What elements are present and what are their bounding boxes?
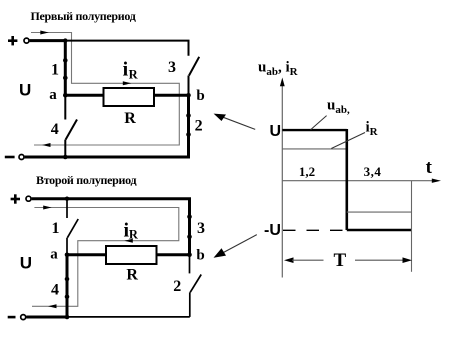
switch S4 open branch (circuit 1) [65,96,77,157]
svg-text:2: 2 [195,118,203,135]
label R (circuit 2) [126,266,138,283]
wire: switch 3 to node b (circuit 1) [188,76,190,96]
current arrow bottom (circuit 1) [42,143,51,147]
dashed -U level line [283,229,346,231]
label -U level [264,222,281,239]
wire: node a to resistor (circuit 1) [65,94,104,97]
contact dot S3 lower (circuit 2) [187,234,192,239]
svg-text:b: b [196,88,204,104]
wire: resistor to node b (circuit 1) [154,94,189,97]
svg-text:T: T [334,250,347,271]
svg-text:3,4: 3,4 [364,164,382,179]
terminal circle - (circuit 1) [19,155,24,160]
wire: bottom return (circuit 1) [25,156,190,159]
pointer line i_R [331,133,365,149]
u_ab negative segment [347,229,412,231]
label interval 3,4 [364,164,382,179]
plus terminal symbol (circuit 2) [11,194,20,203]
terminal circle + (circuit 1) [24,38,29,43]
contact dot S1 upper [63,58,68,63]
label interval 1,2 [299,164,315,179]
wire: top branch to switch 3 (circuit 2) [67,199,190,255]
wire: + terminal to node (circuit 1) [30,39,66,42]
label 2 (circuit 2) [173,278,181,295]
label a (circuit 1) [49,87,57,103]
node a (circuit 2) [65,253,70,258]
svg-text:Первый полупериод: Первый полупериод [31,9,136,23]
waveform time axis t [282,179,441,183]
resistor R (circuit 2) [106,246,157,264]
resistor R (circuit 1) [104,88,155,106]
current path line (circuit 2, gray loop) [32,208,179,307]
label 1 (circuit 2) [52,220,60,237]
svg-text:Второй полупериод: Второй полупериод [36,173,136,187]
terminal circle + (circuit 2) [26,196,31,201]
junction top-left (circuit 2) [65,197,69,201]
svg-text:b: b [196,248,204,264]
label 3 (circuit 2) [197,220,205,237]
contact dot S2 lower [186,132,191,137]
svg-text:U: U [20,254,32,273]
wire: node a to resistor (circuit 2) [67,253,107,256]
svg-text:U: U [270,123,282,140]
junction bottom-left (circuit 2) [65,315,70,320]
pointer line u_ab, [311,116,327,130]
label R (circuit 1) [124,110,136,127]
switch S4 closed (circuit 2) [66,255,69,317]
waveform vertical axis [280,78,285,278]
label b (circuit 1) [196,88,204,104]
label i_R (circuit 1) [123,59,139,82]
wire: + terminal to node (circuit 2) [32,197,67,200]
label b (circuit 2) [196,248,204,264]
terminal circle - (circuit 2) [21,315,26,320]
switch S2 open branch (circuit 2) [190,255,202,317]
wire: resistor to node b (circuit 2) [157,253,190,256]
label 2 (circuit 1) [195,118,203,135]
i_R positive segment [282,148,347,150]
svg-text:a: a [50,247,58,263]
current arrow i_R (circuit 2) [124,239,133,243]
u_ab positive segment [282,129,347,131]
contact dot S3 upper (circuit 2) [187,215,192,220]
u_ab step down [345,129,348,230]
junction top-left (circuit 1) [63,38,67,42]
svg-text:1: 1 [51,62,59,79]
i_R negative segment [347,211,412,213]
label 3 (circuit 1) [168,59,176,76]
svg-text:U: U [19,81,31,100]
svg-text:a: a [49,87,57,103]
contact dot S4 upper (circuit 2) [65,277,70,282]
svg-text:R: R [124,110,136,127]
svg-text:-U: -U [264,222,281,239]
period dimension arrow T [284,257,412,263]
svg-text:R: R [126,266,138,283]
svg-text:3: 3 [197,220,205,237]
svg-text:2: 2 [173,278,181,295]
contact dot S1 lower [63,76,68,81]
current arrow i_R (circuit 1) [123,81,132,85]
label 4 (circuit 2) [51,282,59,299]
switch S1 open branch (circuit 2) [67,199,78,255]
label U level [270,123,282,140]
label i_R (circuit 2) [124,220,139,242]
contact dot S4 lower (circuit 2) [65,294,70,299]
current arrow top (circuit 1) [40,31,49,35]
extension line right [411,181,413,272]
title: Первый полупериод [31,9,136,23]
node b (circuit 1) [186,93,191,98]
pointer arrow to circuit 2 [214,235,257,258]
label i_R waveform [366,120,379,139]
switch S1 closed (circuit 1) [64,41,67,96]
minus terminal symbol (circuit 2) [8,316,16,319]
current arrow bottom (circuit 2) [48,304,57,308]
label u_ab, [327,98,350,117]
minus terminal symbol (circuit 1) [5,156,15,159]
label t [426,157,433,178]
junction bottom-left (circuit 1) [63,155,68,160]
wire: top branch to switch 3 (circuit 1) [65,41,188,56]
wire: bottom return thick (circuit 2) [26,316,67,319]
label U source (circuit 2) [20,254,32,273]
svg-text:t: t [426,157,433,178]
label 1 (circuit 1) [51,62,59,79]
label T [334,250,347,271]
title: Второй полупериод [36,173,136,187]
svg-text:4: 4 [51,282,59,299]
label a (circuit 2) [50,247,58,263]
svg-text:4: 4 [51,121,59,138]
svg-text:1,2: 1,2 [299,164,315,179]
svg-text:1: 1 [52,220,60,237]
plus terminal symbol (circuit 1) [8,36,17,45]
node b (circuit 2) [187,253,192,258]
label 4 (circuit 1) [51,121,59,138]
wire: bottom return thin (circuit 2) [67,316,190,318]
label U source (circuit 1) [19,81,31,100]
pointer arrow to circuit 1 [214,114,256,130]
svg-text:3: 3 [168,59,176,76]
axis title u_ab, i_R [258,60,299,79]
node a (circuit 1) [63,93,68,98]
contact dot S2 upper [186,113,191,118]
current path line (circuit 1, gray loop) [31,33,179,146]
switch S2 closed (circuit 1) [187,95,190,157]
switch S3 open blade (circuit 1) [189,57,199,76]
current arrow top (circuit 2) [43,206,52,210]
